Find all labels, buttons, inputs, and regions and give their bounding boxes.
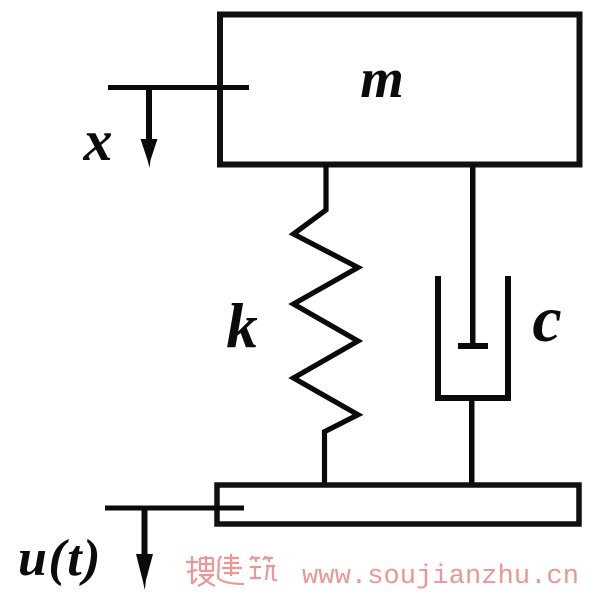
watermark CJK character 建 <box>218 554 244 584</box>
svg-text:k: k <box>226 291 258 361</box>
svg-text:www.soujianzhu.cn: www.soujianzhu.cn <box>302 562 579 592</box>
damper c : piston plate <box>458 343 488 349</box>
arrow u (ground motion arrow, downward) <box>136 507 153 590</box>
watermark CJK character 搜 <box>186 556 215 586</box>
damper c : piston rod from mass <box>470 164 476 344</box>
svg-text:m: m <box>360 48 404 110</box>
svg-text:x: x <box>83 108 113 173</box>
arrow x (displacement arrow, downward) <box>141 87 158 168</box>
reference line at base (horizontal datum for u) <box>105 506 244 511</box>
base plate (ground/foundation rectangle) <box>217 485 579 524</box>
svg-text:c: c <box>532 283 561 356</box>
watermark CJK character 筑 <box>250 556 277 580</box>
reference line at mass (horizontal datum for x) <box>108 85 249 90</box>
damper c : cylinder cup <box>438 276 508 398</box>
mass block m (rectangle) <box>220 15 580 165</box>
spring k (zigzag) <box>294 164 359 487</box>
svg-text:u(t): u(t) <box>18 530 102 587</box>
damper c : lower rod to base <box>469 398 475 487</box>
